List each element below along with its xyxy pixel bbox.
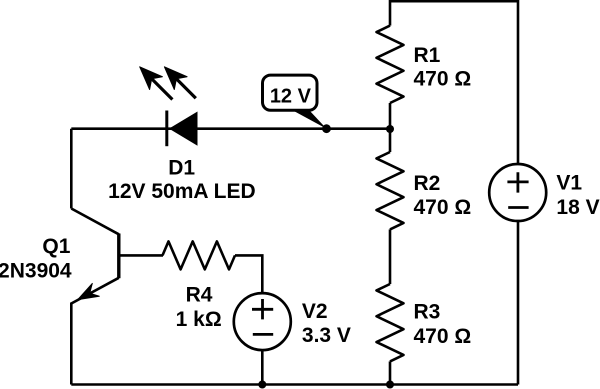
wire node to R2 bbox=[389, 129, 392, 152]
wire top rail bbox=[390, 0, 518, 3]
V1 minus sign bbox=[508, 206, 528, 209]
wire V2 bottom stub bbox=[261, 340, 264, 385]
transistor Q1 bbox=[78, 234, 119, 300]
12V callout box bbox=[263, 75, 331, 133]
junction node at R1/R2/LED bbox=[386, 125, 394, 133]
wire left branch lower bbox=[70, 303, 73, 385]
junction node at V2 bottom rail bbox=[258, 381, 266, 389]
svg-text:12 V: 12 V bbox=[270, 86, 312, 108]
callout pointer wedge bbox=[292, 110, 327, 129]
svg-text:R2: R2 bbox=[414, 172, 441, 195]
callout rounded rect bbox=[263, 75, 318, 110]
voltage source V1 bbox=[489, 164, 546, 221]
wire R4 to V2 corner bbox=[235, 255, 262, 300]
svg-text:3.3 V: 3.3 V bbox=[302, 324, 351, 347]
svg-text:R4: R4 bbox=[186, 284, 213, 307]
svg-text:12V 50mA LED: 12V 50mA LED bbox=[108, 180, 255, 203]
svg-text:R3: R3 bbox=[414, 301, 441, 324]
D1 triangle bbox=[169, 112, 198, 146]
D1 cathode bar bbox=[165, 111, 168, 147]
V1 plus sign bbox=[507, 172, 528, 192]
wire R2 to R3 bbox=[389, 229, 392, 284]
svg-text:470 Ω: 470 Ω bbox=[414, 325, 472, 348]
callout anchor dot bbox=[322, 124, 331, 133]
resistor R4 bbox=[163, 241, 236, 269]
Q1 emitter arrowhead bbox=[78, 283, 100, 299]
svg-text:V1: V1 bbox=[556, 172, 582, 195]
wire Q1 collector diagonal bbox=[71, 209, 119, 235]
svg-text:2N3904: 2N3904 bbox=[0, 260, 72, 283]
V2 circle bbox=[234, 293, 291, 350]
svg-text:1 kΩ: 1 kΩ bbox=[176, 308, 222, 331]
V1 circle bbox=[489, 164, 546, 221]
D1 light arrow 2 head bbox=[164, 67, 187, 90]
resistor R1 bbox=[377, 26, 404, 103]
D1 light arrow 1 shaft bbox=[149, 76, 173, 100]
wire LED row bbox=[71, 127, 390, 130]
svg-text:470 Ω: 470 Ω bbox=[414, 196, 472, 219]
junction node at R3 bottom rail bbox=[386, 381, 394, 389]
wire V1 top stub bbox=[517, 0, 520, 175]
wire R1 bottom stub bbox=[389, 103, 392, 129]
svg-text:R1: R1 bbox=[414, 44, 441, 67]
D1 light arrow 2 shaft bbox=[174, 76, 196, 98]
wire V1 bottom stub bbox=[517, 210, 520, 385]
wire Q1 base lead bbox=[119, 254, 163, 257]
voltage source V2 bbox=[234, 293, 291, 350]
svg-text:470 Ω: 470 Ω bbox=[414, 68, 472, 91]
resistor R3 bbox=[377, 284, 404, 361]
wire R1 top stub bbox=[389, 0, 392, 26]
LED D1 bbox=[140, 67, 198, 146]
V2 minus sign bbox=[253, 333, 273, 336]
svg-text:D1: D1 bbox=[168, 157, 195, 180]
resistor R2 bbox=[377, 152, 404, 229]
wire Q1 emitter diagonal bbox=[71, 278, 119, 304]
wire left branch upper bbox=[70, 129, 73, 209]
D1 light arrow 1 head bbox=[140, 67, 163, 90]
wire R3 bottom stub bbox=[389, 361, 392, 384]
svg-text:Q1: Q1 bbox=[42, 235, 70, 258]
svg-text:V2: V2 bbox=[302, 300, 328, 323]
wire bottom rail bbox=[71, 383, 518, 386]
Q1 base bar bbox=[117, 234, 120, 279]
svg-text:18 V: 18 V bbox=[556, 196, 599, 219]
V2 plus sign bbox=[252, 299, 273, 319]
